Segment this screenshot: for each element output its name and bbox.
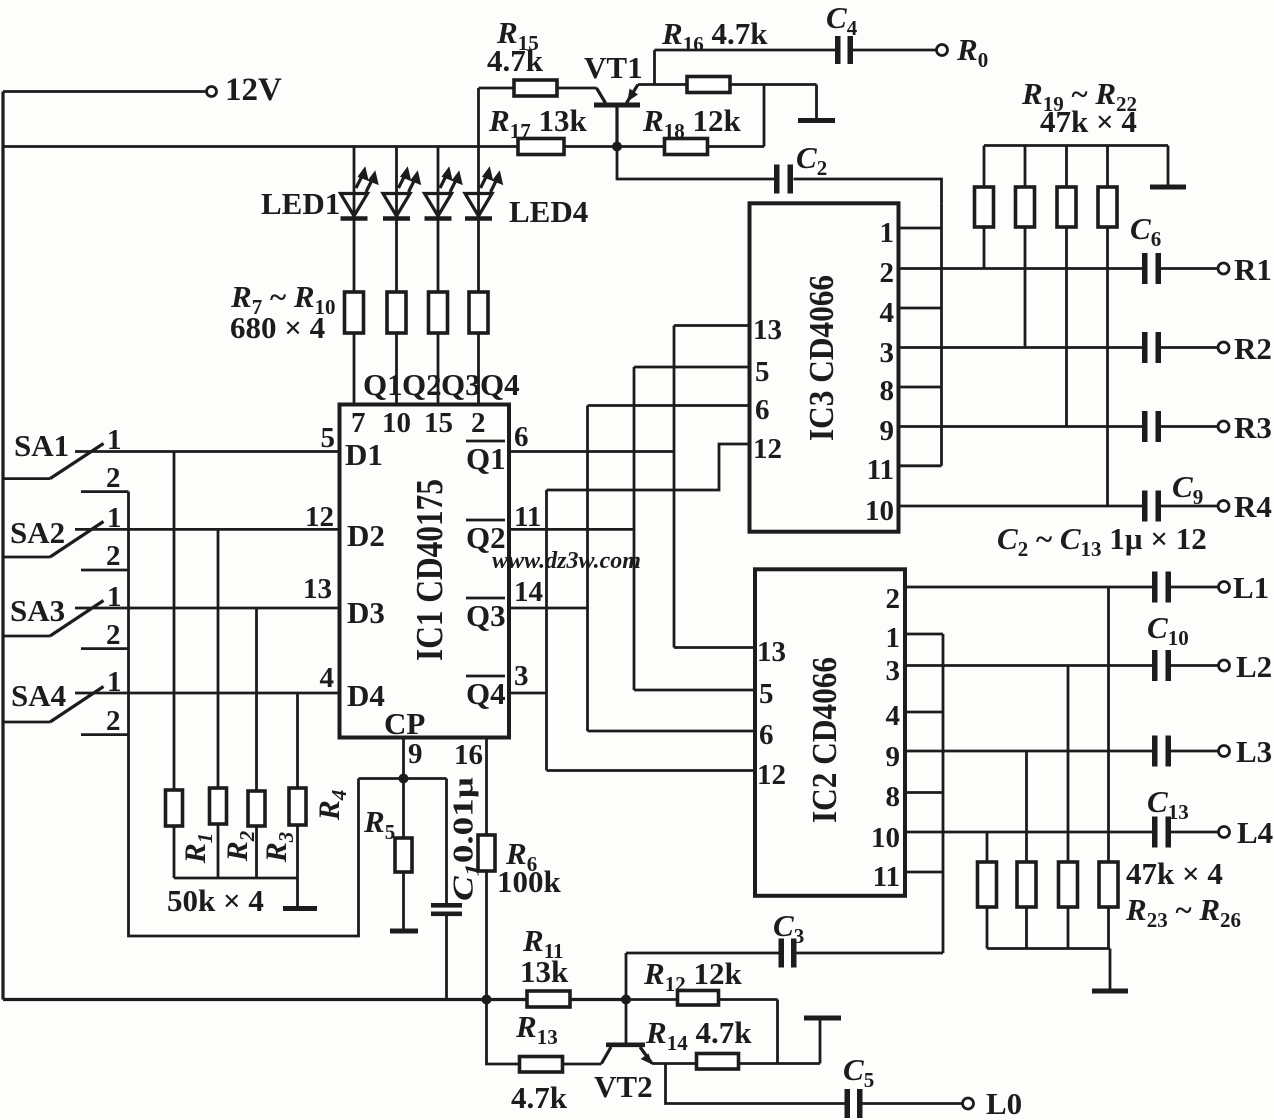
svg-text:R3: R3: [1234, 410, 1272, 445]
svg-text:C4: C4: [826, 0, 858, 40]
wire LED3 column: [437, 147, 440, 405]
wire net C to IC3 pin6: [588, 404, 750, 407]
svg-text:6: 6: [759, 719, 774, 751]
pin label Q1bar: [466, 441, 506, 476]
svg-text:47k × 4: 47k × 4: [1126, 856, 1223, 891]
svg-text:C5: C5: [843, 1052, 874, 1092]
svg-text:C2: C2: [796, 140, 827, 180]
LED LED1: [341, 170, 377, 219]
wire net D riser: [545, 490, 548, 771]
svg-text:R4: R4: [313, 790, 351, 822]
svg-text:R16 4.7k: R16 4.7k: [661, 16, 768, 56]
svg-text:R23 ~ R26: R23 ~ R26: [1125, 892, 1241, 932]
svg-text:R17 13k: R17 13k: [488, 103, 587, 143]
capacitor C6: [1142, 253, 1161, 284]
svg-text:10: 10: [865, 495, 894, 527]
op-amp IC3 CD4066 box: [750, 203, 899, 531]
wire IC3 pin4 to control tie: [899, 307, 942, 310]
svg-text:15: 15: [424, 407, 453, 439]
capacitor on L3 line: [1152, 736, 1171, 767]
terminal R0: [937, 45, 948, 56]
svg-text:CP: CP: [384, 706, 425, 741]
svg-text:SA2: SA2: [10, 515, 65, 550]
svg-text:1: 1: [107, 502, 122, 534]
LED LED4: [465, 170, 501, 219]
wire net B to IC2 pin5: [634, 689, 755, 692]
wire IC2 pin2 output L1: [905, 586, 1152, 589]
capacitor C1: [431, 903, 462, 916]
svg-text:L0: L0: [986, 1086, 1022, 1120]
svg-text:SA4: SA4: [11, 678, 66, 713]
wire LED4 column: [477, 88, 480, 405]
resistor R26: [1099, 587, 1118, 949]
terminal R4: [1218, 501, 1229, 512]
svg-text:50k × 4: 50k × 4: [167, 883, 264, 918]
wire net D to IC3 pin12: [547, 444, 750, 490]
resistor R10: [469, 292, 488, 333]
op-amp IC2 CD4066 box: [755, 569, 905, 896]
capacitor C2: [774, 165, 793, 194]
svg-text:C3: C3: [773, 908, 804, 948]
ground R5: [390, 929, 418, 934]
resistor R15: [514, 80, 557, 96]
svg-text:7: 7: [351, 407, 366, 439]
capacitor C3: [779, 939, 797, 968]
svg-text:9: 9: [880, 415, 895, 447]
svg-text:4: 4: [886, 700, 901, 732]
ground R19-R22 rail: [1150, 146, 1186, 190]
svg-text:5: 5: [755, 356, 770, 388]
wire CP pin9: [402, 738, 405, 839]
wire IC2 pin1 to control tie: [905, 633, 943, 636]
svg-text:2: 2: [106, 540, 121, 572]
svg-text:www.dz3w.com: www.dz3w.com: [492, 548, 641, 574]
wire VT2 emitter line: [652, 1062, 820, 1065]
wire pin16 column: [485, 738, 488, 1000]
svg-text:IC3 CD4066: IC3 CD4066: [802, 275, 841, 441]
wire C8 to R3 terminal: [1161, 425, 1218, 428]
svg-text:6: 6: [514, 421, 529, 453]
svg-text:R14 4.7k: R14 4.7k: [645, 1015, 752, 1055]
svg-text:680 × 4: 680 × 4: [230, 310, 325, 345]
wire top 12V bus: [3, 145, 617, 148]
wire R19-R22 top rail: [984, 144, 1168, 147]
svg-text:C10: C10: [1147, 610, 1189, 650]
wire C3 branch: [626, 953, 943, 1045]
wire R23-R26 bottom join: [987, 947, 1110, 950]
terminal L3: [1219, 746, 1230, 757]
svg-text:L1: L1: [1233, 570, 1269, 605]
svg-text:9: 9: [886, 741, 901, 773]
svg-text:Q4: Q4: [480, 367, 520, 402]
svg-text:R1: R1: [1234, 252, 1272, 287]
wire C9 to R4 terminal: [1161, 505, 1218, 508]
wire C2 branch: [617, 147, 942, 204]
wire left rail: [1, 92, 4, 1000]
wire C7 to R2 terminal: [1161, 346, 1218, 349]
svg-text:8: 8: [886, 781, 901, 813]
ground R23-R26: [1092, 949, 1128, 994]
wire C4 line: [655, 49, 837, 52]
wire IC3 pin3 output R2: [899, 346, 1144, 349]
wire R2 column: [217, 529, 220, 878]
junction pin16 on bottom bus: [482, 995, 492, 1005]
svg-text:3: 3: [886, 655, 901, 687]
svg-text:6: 6: [755, 394, 770, 426]
wire IC3 pin10 output R4: [899, 505, 1144, 508]
ground near R16: [798, 85, 835, 124]
op-amp IC1 CD40175 box: [340, 405, 510, 738]
svg-text:5: 5: [321, 422, 336, 454]
svg-text:R3: R3: [260, 832, 298, 864]
wire switch common column: [129, 492, 359, 936]
wire IC2 pin8 to control tie: [905, 791, 943, 794]
wire IC3 pin1 to control tie: [899, 227, 942, 230]
terminal L1: [1219, 582, 1230, 593]
wire R1-R4 bottom join: [174, 877, 298, 880]
wire net A to IC3 pin13: [674, 324, 750, 327]
wire IC3 pin9 output R3: [899, 425, 1144, 428]
terminal 12V: [207, 87, 217, 97]
wire net A riser (IC3 pin13 / IC2 pin13): [673, 326, 676, 648]
wire IC2 pin10 output L4: [905, 831, 1152, 834]
resistor R22: [1098, 146, 1117, 507]
wire R1 column: [173, 452, 176, 879]
resistor R16: [687, 77, 730, 93]
svg-text:10: 10: [871, 822, 900, 854]
wire to L4 terminal: [1171, 831, 1218, 834]
resistor R14: [697, 1054, 739, 1070]
svg-text:L3: L3: [1236, 734, 1272, 769]
svg-text:Q1: Q1: [466, 441, 506, 476]
resistor R20: [1016, 146, 1035, 348]
svg-text:10: 10: [382, 407, 411, 439]
svg-text:R5: R5: [363, 804, 395, 844]
pin label Q3bar: [466, 598, 506, 633]
wire R4 column: [296, 693, 299, 908]
svg-text:D2: D2: [347, 518, 385, 553]
wire LED1 column: [353, 147, 356, 405]
svg-text:3: 3: [880, 337, 895, 369]
wire net B riser (IC3 pin5 / IC2 pin5): [633, 367, 636, 690]
svg-text:4: 4: [880, 297, 895, 329]
wire R3 column: [255, 608, 258, 878]
terminal L4: [1219, 827, 1230, 838]
ground R4: [283, 906, 317, 911]
svg-text:R13: R13: [515, 1009, 558, 1049]
wire to L3 terminal: [1171, 750, 1218, 753]
resistor R9: [429, 292, 448, 333]
transistor VT1: [594, 85, 640, 147]
svg-text:Q4: Q4: [466, 676, 506, 711]
svg-text:2: 2: [886, 583, 901, 615]
svg-text:LED1: LED1: [261, 186, 340, 221]
svg-text:R18 12k: R18 12k: [642, 103, 741, 143]
wire net C riser (IC3 pin6 / IC2 pin6): [586, 406, 589, 732]
svg-text:13: 13: [757, 636, 786, 668]
capacitor C5: [845, 1089, 863, 1118]
LED LED3: [425, 170, 461, 219]
svg-text:2: 2: [106, 462, 121, 494]
wire IC3 pin8 to control tie: [899, 386, 942, 389]
resistor R19: [975, 146, 994, 269]
resistor R18: [665, 139, 708, 155]
wire IC2 control tie vertical: [942, 634, 945, 953]
svg-text:2: 2: [106, 705, 121, 737]
svg-text:8: 8: [880, 375, 895, 407]
wire IC3 control tie vertical: [940, 203, 943, 466]
switch SA1: [3, 444, 340, 492]
capacitor C13 on L4 line: [1152, 817, 1171, 848]
svg-text:4.7k: 4.7k: [487, 43, 544, 78]
svg-text:VT1: VT1: [584, 50, 643, 85]
svg-text:2: 2: [880, 257, 895, 289]
svg-text:1: 1: [107, 666, 122, 698]
svg-text:R1: R1: [179, 833, 217, 865]
svg-text:12: 12: [753, 433, 782, 465]
wire Q3bar to control net C: [509, 607, 588, 610]
resistor R4: [289, 788, 306, 825]
resistor R21: [1057, 146, 1076, 427]
switch SA2: [3, 522, 340, 571]
svg-text:L4: L4: [1237, 815, 1273, 850]
resistor R13: [520, 1057, 563, 1073]
LED LED2: [383, 170, 419, 219]
svg-text:2: 2: [471, 407, 486, 439]
capacitor on L1 line: [1152, 572, 1171, 603]
svg-text:11: 11: [867, 454, 894, 486]
wire C4 riser: [653, 50, 656, 85]
wire 12V feed: [3, 90, 206, 93]
svg-text:IC1 CD40175: IC1 CD40175: [409, 479, 451, 661]
junction CP node: [399, 774, 409, 784]
switch SA3: [3, 601, 340, 649]
resistor R7: [345, 292, 364, 333]
resistor R5: [395, 838, 412, 929]
svg-text:12: 12: [757, 759, 786, 791]
resistor R24: [1017, 751, 1036, 949]
wire IC3 pin2 output R1: [899, 267, 1144, 270]
svg-text:4.7k: 4.7k: [511, 1080, 568, 1115]
svg-text:Q3: Q3: [466, 598, 506, 633]
capacitor C7: [1142, 332, 1161, 363]
svg-text:3: 3: [514, 660, 529, 692]
svg-text:C6: C6: [1130, 211, 1161, 251]
svg-text:R2: R2: [221, 830, 259, 862]
wire C4 to R0: [853, 49, 937, 52]
transistor VT2: [602, 1043, 653, 1065]
terminal L0: [963, 1098, 974, 1109]
svg-text:13: 13: [303, 573, 332, 605]
resistor R1: [166, 790, 183, 826]
wire IC2 pin4 to control tie: [905, 711, 943, 714]
terminal L2: [1219, 660, 1230, 671]
wire bottom bus: [3, 998, 527, 1001]
capacitor C10 on L2 line: [1152, 650, 1171, 681]
junction VT2 base node: [621, 995, 631, 1005]
resistor R12: [626, 991, 778, 1064]
wire IC2 pin3 output L2: [905, 664, 1152, 667]
wire C1 branch: [445, 779, 448, 1000]
wire Q1bar to control net A: [509, 450, 674, 453]
svg-text:13k: 13k: [520, 954, 569, 989]
wire R18 branch: [617, 85, 764, 147]
svg-text:13: 13: [753, 314, 782, 346]
wire L0 line: [666, 1064, 963, 1104]
wire net B to IC3 pin5: [634, 366, 750, 369]
wire to L1 terminal: [1171, 586, 1218, 589]
wire VT1 emitter line: [638, 83, 817, 86]
svg-text:100k: 100k: [497, 864, 562, 899]
svg-text:1: 1: [107, 424, 122, 456]
wire IC3 pin11 to control tie: [899, 464, 942, 467]
svg-text:12V: 12V: [225, 72, 282, 108]
svg-text:14: 14: [514, 576, 543, 608]
wire CP node horizontal: [359, 777, 447, 780]
resistor R17 (in series on bus): [518, 139, 564, 155]
svg-text:Q2: Q2: [402, 367, 442, 402]
resistor R11: [527, 991, 570, 1007]
svg-text:1: 1: [880, 217, 895, 249]
capacitor C8: [1142, 411, 1161, 442]
pin label Q2bar: [466, 520, 506, 555]
svg-text:LED4: LED4: [509, 194, 588, 229]
capacitor C9: [1142, 491, 1161, 522]
svg-text:11: 11: [873, 861, 900, 893]
wire net D to IC2 pin12: [547, 769, 756, 772]
svg-text:16: 16: [454, 739, 483, 771]
svg-text:47k × 4: 47k × 4: [1040, 104, 1137, 139]
terminal R1: [1218, 263, 1229, 274]
svg-text:Q3: Q3: [441, 367, 481, 402]
wire LED2 column: [395, 147, 398, 405]
svg-text:D3: D3: [347, 595, 385, 630]
capacitor C4: [835, 36, 853, 64]
wire bus R11 to VT2 base node: [570, 998, 626, 1001]
svg-text:R0: R0: [956, 32, 988, 72]
wire net C to IC2 pin6: [588, 730, 756, 733]
svg-text:9: 9: [408, 738, 423, 770]
svg-text:D4: D4: [347, 678, 385, 713]
wire to L2 terminal: [1171, 664, 1218, 667]
switch SA4: [3, 687, 340, 735]
svg-text:D1: D1: [345, 437, 383, 472]
junction VT1 base on bus: [612, 142, 622, 152]
resistor R2: [210, 788, 227, 824]
resistor R23: [978, 832, 997, 949]
wire C6 to R1 terminal: [1161, 267, 1218, 270]
svg-text:VT2: VT2: [594, 1069, 653, 1104]
ground VT2 emitter: [804, 1016, 841, 1064]
wire R13 line: [487, 1000, 602, 1065]
svg-text:SA1: SA1: [14, 428, 69, 463]
svg-text:R2: R2: [1234, 331, 1272, 366]
svg-text:SA3: SA3: [10, 593, 65, 628]
svg-text:1: 1: [886, 622, 901, 654]
svg-text:L2: L2: [1236, 649, 1272, 684]
wire net A to IC2 pin13: [674, 646, 755, 649]
wire Q4bar to control net D: [509, 692, 547, 695]
terminal R3: [1218, 421, 1229, 432]
resistor R25: [1059, 666, 1078, 949]
svg-text:C2 ~ C13 1µ × 12: C2 ~ C13 1µ × 12: [997, 521, 1207, 561]
pin label Q4bar: [466, 676, 506, 711]
svg-text:R12 12k: R12 12k: [643, 956, 742, 996]
resistor R3: [248, 791, 265, 826]
wire IC2 pin9 output L3: [905, 750, 1152, 753]
svg-text:4: 4: [320, 662, 335, 694]
svg-text:R4: R4: [1234, 489, 1272, 524]
svg-text:1: 1: [107, 581, 122, 613]
resistor R8: [387, 292, 406, 333]
svg-text:2: 2: [106, 619, 121, 651]
svg-text:IC2 CD4066: IC2 CD4066: [805, 657, 844, 823]
svg-text:C9: C9: [1172, 469, 1203, 509]
wire Q2bar to control net B: [509, 528, 634, 531]
svg-text:5: 5: [759, 678, 774, 710]
svg-text:Q1: Q1: [363, 367, 403, 402]
wire R15 branch: [479, 87, 597, 90]
resistor R6: [478, 835, 495, 871]
wire IC2 pin11 to control tie: [905, 871, 943, 874]
terminal R2: [1218, 342, 1229, 353]
